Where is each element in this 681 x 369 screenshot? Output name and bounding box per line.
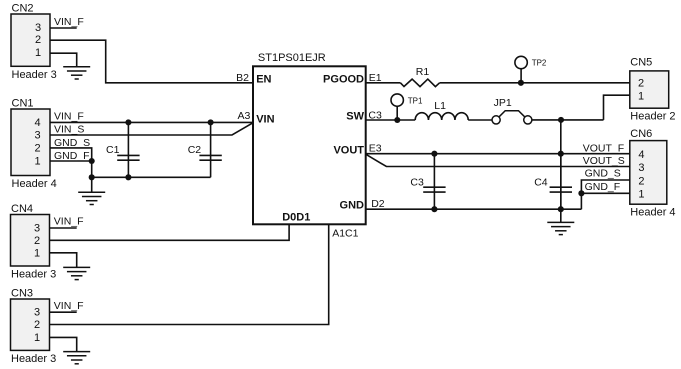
svg-text:Header 3: Header 3: [12, 69, 57, 81]
svg-text:GND_S: GND_S: [585, 167, 621, 179]
svg-text:TP2: TP2: [532, 59, 547, 68]
svg-text:L1: L1: [434, 100, 446, 112]
svg-text:Header 4: Header 4: [12, 178, 57, 190]
svg-text:C3: C3: [410, 176, 424, 188]
svg-text:4: 4: [638, 149, 644, 161]
svg-text:A1C1: A1C1: [332, 227, 358, 239]
svg-text:CN5: CN5: [630, 56, 652, 68]
svg-text:3: 3: [34, 307, 40, 319]
svg-text:JP1: JP1: [494, 97, 512, 109]
svg-text:2: 2: [35, 34, 41, 46]
svg-text:1: 1: [34, 156, 40, 168]
svg-text:VIN_F: VIN_F: [54, 300, 84, 312]
svg-text:2: 2: [638, 78, 644, 90]
svg-text:1: 1: [34, 247, 40, 259]
svg-text:VOUT_S: VOUT_S: [583, 155, 625, 167]
svg-text:PGOOD: PGOOD: [323, 73, 364, 85]
svg-text:ST1PS01EJR: ST1PS01EJR: [258, 52, 326, 64]
svg-text:VOUT_F: VOUT_F: [583, 143, 624, 155]
svg-text:3: 3: [34, 130, 40, 142]
svg-text:CN4: CN4: [11, 203, 33, 215]
svg-text:CN3: CN3: [11, 288, 33, 300]
svg-text:D2: D2: [371, 198, 385, 210]
svg-text:D0D1: D0D1: [282, 211, 310, 223]
svg-text:VOUT: VOUT: [333, 144, 364, 156]
svg-text:VIN_F: VIN_F: [54, 216, 84, 228]
svg-text:R1: R1: [416, 66, 430, 78]
svg-text:CN2: CN2: [12, 3, 34, 15]
svg-text:CN6: CN6: [630, 128, 652, 140]
svg-text:VIN_S: VIN_S: [54, 124, 84, 136]
svg-text:Header 3: Header 3: [11, 269, 56, 281]
svg-text:Header 3: Header 3: [11, 353, 56, 365]
svg-text:3: 3: [34, 223, 40, 235]
svg-text:3: 3: [35, 22, 41, 34]
svg-text:EN: EN: [256, 73, 271, 85]
svg-text:SW: SW: [346, 111, 364, 123]
svg-text:VIN_F: VIN_F: [54, 111, 84, 123]
svg-text:C1: C1: [106, 144, 120, 156]
svg-text:1: 1: [35, 47, 41, 59]
svg-text:GND_F: GND_F: [54, 150, 90, 162]
svg-text:2: 2: [638, 175, 644, 187]
svg-text:Header 4: Header 4: [630, 207, 675, 219]
svg-text:1: 1: [638, 189, 644, 201]
svg-text:VIN: VIN: [256, 113, 274, 125]
svg-text:2: 2: [34, 142, 40, 154]
svg-text:GND: GND: [340, 200, 365, 212]
svg-text:TP1: TP1: [408, 96, 423, 105]
svg-text:Header 2: Header 2: [630, 111, 675, 123]
svg-text:VIN_F: VIN_F: [54, 16, 84, 28]
svg-text:C2: C2: [188, 144, 202, 156]
svg-text:GND_F: GND_F: [585, 181, 621, 193]
svg-text:1: 1: [34, 332, 40, 344]
svg-text:1: 1: [638, 91, 644, 103]
svg-text:3: 3: [638, 162, 644, 174]
svg-text:GND_S: GND_S: [54, 137, 90, 149]
svg-text:B2: B2: [236, 72, 249, 84]
svg-text:CN1: CN1: [12, 98, 34, 110]
svg-text:4: 4: [34, 117, 40, 129]
svg-text:C4: C4: [534, 176, 548, 188]
svg-text:2: 2: [34, 319, 40, 331]
svg-text:A3: A3: [238, 110, 251, 122]
svg-text:2: 2: [34, 235, 40, 247]
